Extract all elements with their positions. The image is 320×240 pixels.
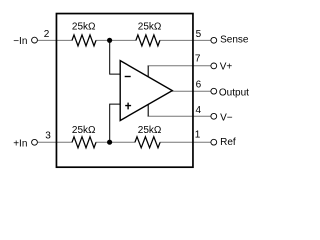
terminal circle Sense pin 5 <box>211 37 217 43</box>
wire R3 to R4 through node B <box>96 141 136 143</box>
svg-text:7: 7 <box>195 54 201 65</box>
terminal circle V+ pin 7 <box>211 63 217 69</box>
svg-text:5: 5 <box>196 29 202 40</box>
svg-text:V−: V− <box>220 112 233 123</box>
terminal circle Output pin 6 <box>211 88 217 94</box>
svg-text:25kΩ: 25kΩ <box>72 22 96 33</box>
svg-text:25kΩ: 25kΩ <box>138 125 162 136</box>
svg-text:2: 2 <box>44 29 50 40</box>
wire op-amp output to pin 6 <box>172 90 211 92</box>
resistor R2 zigzag <box>136 35 160 46</box>
resistor R4 zigzag <box>135 137 160 148</box>
svg-text:+In: +In <box>13 138 27 149</box>
terminal circle V- pin 4 <box>211 113 217 119</box>
svg-text:4: 4 <box>196 105 202 116</box>
svg-text:V+: V+ <box>220 62 233 73</box>
svg-text:6: 6 <box>196 80 202 91</box>
op-amp U1 <box>120 61 172 121</box>
svg-text:Sense: Sense <box>220 34 249 45</box>
wire V- rail to pin 4 <box>148 115 211 117</box>
resistor R1 zigzag <box>72 35 96 46</box>
op-amp inverting input minus sign <box>125 76 131 78</box>
op-amp non-inverting input plus sign <box>125 103 131 110</box>
wire V+ rail to pin 7 <box>148 65 211 67</box>
svg-text:3: 3 <box>45 130 51 141</box>
wire R2 to Sense pin 5 <box>160 39 211 41</box>
wire node B to op-amp non-inverting input <box>110 104 121 142</box>
svg-text:Output: Output <box>219 88 249 99</box>
wire -In input to R1 <box>38 39 73 41</box>
svg-text:−In: −In <box>13 36 27 47</box>
wire op-amp top edge to V+ rail <box>147 66 149 78</box>
wire node A to op-amp inverting input <box>110 40 121 74</box>
terminal circle -In pin 2 <box>32 37 38 43</box>
wire R4 to Ref pin 1 <box>160 141 211 143</box>
terminal circle Ref pin 1 <box>211 139 217 145</box>
resistor R3 zigzag <box>72 137 96 148</box>
wire op-amp bottom edge to V- rail <box>147 104 149 117</box>
svg-text:Ref: Ref <box>220 137 236 148</box>
terminal circle +In pin 3 <box>32 139 38 145</box>
IC package box <box>56 14 193 168</box>
svg-text:1: 1 <box>195 130 201 141</box>
svg-text:25kΩ: 25kΩ <box>138 22 162 33</box>
node A junction dot <box>107 38 112 43</box>
wire +In input to R3 <box>38 141 73 143</box>
wire R1 to R2 through node A <box>96 39 137 41</box>
node B junction dot <box>107 140 112 145</box>
svg-text:25kΩ: 25kΩ <box>72 125 96 136</box>
